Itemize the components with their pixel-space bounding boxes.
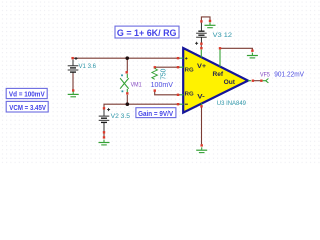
terminal: op-amp RG pin 1 <box>177 66 179 68</box>
wire: V3 bottom terminal to op-amp V+ pin <box>200 45 202 48</box>
wire: +input net, V1 top to op-amp +in pin <box>72 57 180 59</box>
svg-text:Out: Out <box>224 79 235 86</box>
resistor RG 750 <box>154 66 156 68</box>
pin stub V+ <box>200 50 202 58</box>
pin tick RG2 <box>180 94 184 96</box>
battery V3 <box>200 20 202 22</box>
svg-text:VM1: VM1 <box>131 81 142 88</box>
annotation box: Gain = 9V/V <box>136 108 176 118</box>
pin label + (non-inverting input) <box>185 57 187 59</box>
svg-text:V+: V+ <box>197 63 207 70</box>
node: junction of -input net and VM1 branch <box>126 102 130 106</box>
terminal: op-amp RG pin 2 <box>177 94 179 96</box>
wire: VM1 bottom down to -input net <box>126 95 128 104</box>
pin tick RG1 <box>180 66 184 68</box>
ground at Ref net <box>251 50 253 52</box>
wire: Ref pin to ground <box>221 48 252 50</box>
svg-text:V2 3.5: V2 3.5 <box>111 113 131 120</box>
pin label - (inverting input) <box>185 103 188 105</box>
pin tick -in <box>180 103 184 105</box>
svg-text:750: 750 <box>161 69 168 80</box>
wire: op-amp V- pin down to ground <box>201 107 203 144</box>
svg-text:U3 INA849: U3 INA849 <box>217 100 247 107</box>
terminal: op-amp Out pin <box>252 80 254 82</box>
terminal: op-amp +in pin <box>177 57 179 59</box>
voltage pin VF5 probe <box>260 80 262 82</box>
wire: Out pin to voltage pin VF5 <box>254 80 261 82</box>
svg-text:Ref: Ref <box>213 71 225 78</box>
svg-text:VCM = 3.45V: VCM = 3.45V <box>9 105 46 112</box>
wire: V2 bottom to ground <box>103 133 105 136</box>
wire: resistor RG bottom to op-amp RG pin 2 <box>155 92 180 95</box>
svg-text:RG: RG <box>185 92 194 98</box>
annotation box: G = 1+ 6K/ RG <box>115 26 179 38</box>
pin stub Ref <box>219 50 221 67</box>
voltmeter VM1 <box>126 71 128 73</box>
annotation box: Vd = 100mV <box>6 88 47 98</box>
svg-text:V3 12: V3 12 <box>213 32 233 39</box>
ground under V- pin <box>201 144 203 146</box>
svg-text:Gain = 9V/V: Gain = 9V/V <box>138 111 173 118</box>
svg-text:VF5: VF5 <box>260 71 270 78</box>
terminal: op-amp Ref pin <box>219 47 221 49</box>
terminal: op-amp V- pin <box>200 105 202 107</box>
battery V1 <box>71 57 73 59</box>
svg-text:100mV: 100mV <box>151 82 174 89</box>
svg-text:V-: V- <box>197 94 205 101</box>
ground above right of V3 <box>209 20 211 22</box>
wire: V3 top terminal to ground <box>201 17 210 21</box>
svg-text:RG: RG <box>185 68 194 74</box>
terminal: op-amp V+ pin <box>200 47 202 49</box>
wire: resistor RG top to op-amp RG pin 1 <box>156 66 181 68</box>
annotation box: VCM = 3.45V <box>6 101 48 112</box>
svg-text:901.22mV: 901.22mV <box>274 71 304 78</box>
battery V2 <box>103 107 105 109</box>
node: junction of +input net and VM1 branch <box>125 56 129 60</box>
ground under V2 <box>103 136 105 138</box>
terminal: op-amp -in pin <box>177 103 179 105</box>
wire: +input net branch down to VM1 top <box>126 58 128 71</box>
pin stub Out <box>248 80 251 82</box>
svg-text:V1 3.6: V1 3.6 <box>79 63 97 70</box>
op-amp U1 body (U3 INA849 triangle) <box>183 48 248 113</box>
wire: V1 bottom to ground <box>72 73 74 89</box>
pin tick +in <box>180 57 184 59</box>
pin stub V- <box>201 103 203 105</box>
wire: -input net, V2 top to op-amp -in pin <box>104 104 180 107</box>
svg-text:G = 1+ 6K/ RG: G = 1+ 6K/ RG <box>117 28 177 39</box>
ground under V1 <box>72 89 74 91</box>
svg-text:Vd = 100mV: Vd = 100mV <box>9 91 45 98</box>
